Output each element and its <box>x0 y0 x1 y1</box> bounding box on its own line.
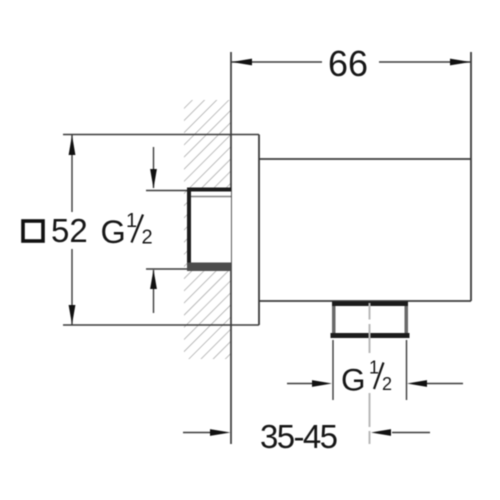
outlet center line dash segment 3 <box>369 393 371 427</box>
outlet left edge <box>332 306 336 334</box>
dimension 35-45 left arrowhead pointing right <box>210 429 231 436</box>
inlet union bottom shaded band <box>187 263 231 272</box>
dimension 35-45 right arrow line <box>392 432 430 434</box>
dimension 35-45 right arrowhead pointing left <box>371 429 391 436</box>
outlet center line dash segment 1 <box>369 303 371 320</box>
dimension 66 right arrowhead <box>450 59 471 66</box>
svg-text:35-45: 35-45 <box>260 418 337 455</box>
dimension 35-45 left arrow line <box>183 432 212 434</box>
inlet bottom extension line <box>146 268 190 270</box>
outlet center line dash segment 4 <box>369 431 371 444</box>
G 1/2 inlet label slash <box>132 215 144 243</box>
body bottom edge <box>259 300 471 302</box>
wall face line <box>230 52 232 444</box>
outlet top bold edge <box>332 302 408 307</box>
flange right edge <box>258 135 260 326</box>
outlet G 1/2 left arrowhead pointing right <box>312 380 332 387</box>
svg-text:2: 2 <box>382 374 392 394</box>
square symbol of 52 label <box>23 221 43 241</box>
inlet union left bold edge <box>187 188 191 272</box>
dimension 52 line lower segment <box>71 249 73 325</box>
outlet right edge <box>405 306 409 334</box>
inlet dimension upper arrowhead pointing down <box>150 169 157 189</box>
body right edge / 66 right extension line <box>470 52 472 301</box>
outlet G 1/2 label slash <box>374 363 384 390</box>
outlet G 1/2 right arrowhead pointing left <box>407 380 427 387</box>
outlet G 1/2 left extension line <box>332 340 334 400</box>
svg-text:1: 1 <box>369 358 379 378</box>
svg-text:2: 2 <box>142 227 153 249</box>
outlet center line dash segment 2 <box>369 324 371 353</box>
inlet top extension line <box>146 190 190 192</box>
dimension 66 line right segment <box>379 61 471 63</box>
inlet dimension upper line <box>153 147 155 188</box>
dimension 52 line upper segment <box>71 135 73 213</box>
flange top edge / 52 top extension line <box>63 134 259 136</box>
inlet union top bold edge <box>187 188 231 192</box>
inlet union inner top line <box>191 196 231 198</box>
dimension 66 line left segment <box>231 61 322 63</box>
dimension 66 left arrowhead <box>232 59 253 66</box>
flange bottom edge / 52 bottom extension line <box>63 324 259 326</box>
dimension 52 top arrowhead <box>69 135 76 155</box>
body top edge <box>259 158 471 160</box>
wall hatching <box>184 100 231 359</box>
inlet dimension lower arrowhead pointing up <box>150 270 157 290</box>
outlet G 1/2 left arrow line <box>287 383 315 385</box>
inlet dimension lower line <box>153 270 155 313</box>
dimension 52 bottom arrowhead <box>69 305 76 325</box>
svg-text:G: G <box>101 214 126 250</box>
svg-text:1: 1 <box>126 210 137 232</box>
svg-text:52: 52 <box>51 212 88 249</box>
outlet G 1/2 right arrow line <box>427 383 463 385</box>
outlet G 1/2 right extension line <box>406 340 408 400</box>
svg-text:G: G <box>341 362 366 398</box>
outlet bottom bold edge <box>331 333 410 338</box>
svg-text:66: 66 <box>328 43 368 84</box>
inlet union body fill <box>189 189 231 269</box>
